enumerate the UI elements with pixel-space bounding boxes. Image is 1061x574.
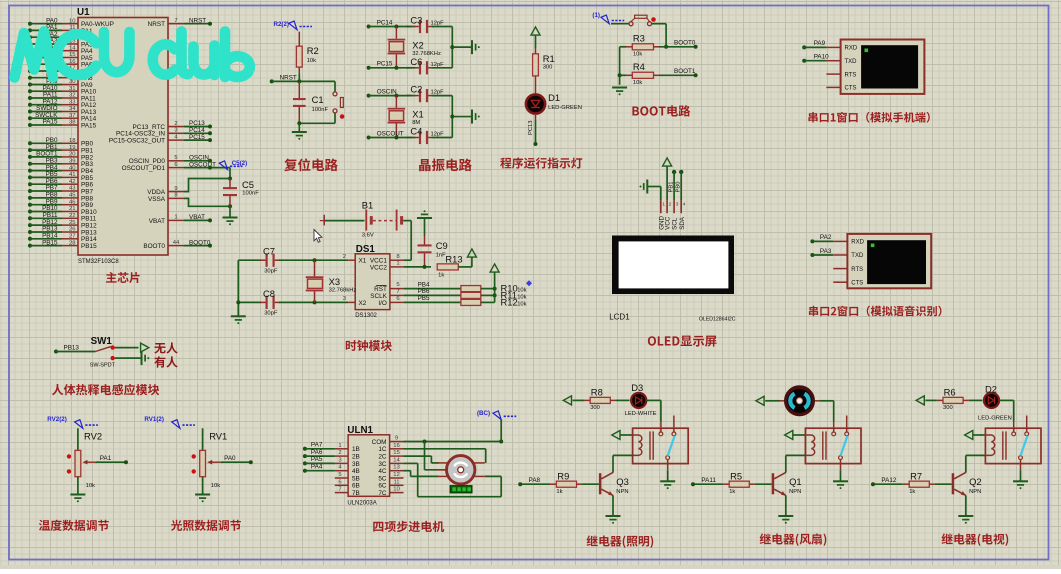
svg-text:C2: C2 — [410, 84, 422, 95]
svg-text:5B: 5B — [352, 475, 360, 482]
wire net PB13 to SW1 — [54, 344, 95, 353]
wire+pin U1 PB11 (pin 22) — [28, 212, 97, 223]
wire battery to VCC1 — [403, 221, 411, 261]
wire net BOOT1 — [659, 68, 698, 77]
svg-text:PA8: PA8 — [529, 477, 541, 484]
svg-text:300: 300 — [943, 405, 953, 411]
svg-text:RV1: RV1 — [209, 431, 227, 442]
svg-text:10k: 10k — [517, 302, 526, 308]
svg-text:NRST: NRST — [280, 74, 297, 81]
svg-text:R6: R6 — [944, 387, 956, 398]
svg-text:R9: R9 — [557, 470, 569, 481]
wire net PA1 from RV2 wiper — [96, 455, 128, 464]
wire net OSCOUT to C5 — [184, 166, 232, 181]
crystal X3 32.768kHz — [306, 260, 357, 302]
wire net NRST node — [270, 74, 335, 83]
svg-text:34: 34 — [69, 106, 76, 112]
blue flag label C5(2) — [219, 160, 247, 170]
wire net PA11 to R5 — [691, 477, 716, 486]
wire net BOOT0 stub — [184, 244, 212, 248]
ground below C5 — [223, 206, 238, 225]
wire net PB5 IO row — [404, 295, 461, 302]
svg-text:PB0: PB0 — [675, 182, 681, 193]
blue diamond marker — [526, 280, 532, 286]
svg-text:NPN: NPN — [969, 489, 981, 495]
svg-text:CTS: CTS — [845, 86, 857, 92]
wire net VBAT stub — [184, 218, 212, 222]
power arrow pullups — [490, 264, 499, 272]
ground crystal X1 — [472, 110, 480, 124]
watermark MCUclub — [15, 32, 250, 78]
wire+pin U1 PA15 (pin 38) — [28, 119, 97, 130]
wire net PA4 to ULN1 4B — [303, 464, 335, 473]
svg-text:41: 41 — [69, 172, 76, 178]
resistor R1 300 — [533, 48, 555, 94]
wire+pin U1 PA1 (pin 11) — [28, 24, 93, 35]
svg-text:32.768kHz: 32.768kHz — [329, 288, 357, 294]
pin ULN1 4B (4) — [335, 465, 360, 475]
svg-text:Q2: Q2 — [969, 476, 982, 487]
capacitor C6 12pF — [406, 56, 452, 75]
wire R13 to power — [458, 257, 472, 267]
battery B1 3.6V — [320, 200, 403, 239]
svg-text:2: 2 — [669, 202, 672, 207]
svg-text:PA6: PA6 — [311, 449, 323, 456]
wire net NRST from U1 — [184, 22, 212, 26]
svg-text:1k: 1k — [438, 273, 444, 279]
virtual terminal serial port 1 — [826, 40, 924, 94]
svg-text:I/O: I/O — [378, 300, 387, 307]
pin ULN1 1B (1) — [335, 443, 360, 453]
wire+pin U1 PB12 (pin 25) — [28, 219, 97, 230]
pin DS1 IO (6) — [390, 296, 404, 302]
svg-text:C1: C1 — [312, 94, 324, 105]
wire net VDDA to C5 node — [184, 178, 230, 193]
svg-text:PA1: PA1 — [100, 455, 112, 462]
svg-text:16: 16 — [69, 59, 76, 65]
svg-text:1k: 1k — [556, 489, 562, 495]
svg-text:14: 14 — [69, 45, 76, 51]
svg-text:6B: 6B — [352, 483, 360, 490]
svg-text:10k: 10k — [517, 288, 526, 294]
label jingzhen — [419, 159, 472, 172]
wire+pin U1 SWDIO (pin 34) — [28, 105, 97, 116]
svg-text:PA3: PA3 — [820, 248, 832, 255]
wire net PA12 to R7 — [871, 477, 897, 486]
svg-text:16: 16 — [393, 443, 400, 449]
svg-text:R3: R3 — [633, 32, 645, 43]
svg-text:43: 43 — [69, 186, 76, 192]
wire net PB4 RST row — [404, 281, 461, 288]
pin U1 PC14 (pin 3) — [116, 127, 205, 138]
wire net PB6 SCLK row — [404, 288, 461, 295]
svg-text:R5: R5 — [730, 470, 742, 481]
svg-text:COM: COM — [372, 439, 387, 446]
label zhuxinpian — [106, 272, 140, 283]
blue flag label RV2(2) — [47, 416, 98, 429]
power arrow left fan — [756, 396, 780, 405]
label jdq3 — [942, 533, 1009, 546]
wire net VCC2 node — [404, 265, 431, 269]
svg-text:100nF: 100nF — [242, 191, 259, 197]
svg-text:PA2: PA2 — [820, 234, 832, 241]
capacitor C7 30pF — [238, 246, 348, 275]
wire 3C to motor — [404, 463, 502, 496]
svg-text:32: 32 — [69, 93, 76, 99]
svg-text:2: 2 — [343, 254, 346, 260]
wire left vertical BOOT divider — [618, 47, 622, 85]
wire+pin U1 BOOT1 (pin 20) — [28, 151, 94, 162]
wire fan to relay contact — [820, 401, 834, 422]
resistor R10 10k — [461, 283, 527, 294]
wire+pin U1 PA5 (pin 15) — [28, 51, 93, 62]
svg-text:PC13: PC13 — [528, 120, 534, 135]
wire net PC15 stub — [184, 138, 212, 142]
LED D3 LED-WHITE — [616, 382, 657, 417]
svg-text:PA15: PA15 — [43, 119, 58, 126]
wire+pin U1 PB7 (pin 43) — [28, 185, 94, 196]
wire+pin U1 PA7 (pin 17) — [28, 65, 93, 76]
RTC chip DS1 DS1302 — [355, 244, 390, 319]
blue flag label R2(2) — [274, 21, 313, 30]
main MCU U1 STM32F103C8 — [77, 7, 168, 265]
svg-text:7C: 7C — [378, 490, 387, 497]
svg-text:STM32F103C8: STM32F103C8 — [78, 259, 119, 265]
svg-text:1k: 1k — [909, 489, 915, 495]
wire relay coil to Q2 collector — [966, 455, 986, 472]
svg-text:X1: X1 — [412, 108, 423, 119]
wire relay coil to Q1 collector — [786, 455, 806, 472]
label wendu — [39, 520, 109, 531]
svg-text:PA15: PA15 — [81, 122, 97, 129]
pin ULN1 2C (15) — [378, 450, 403, 460]
svg-text:19: 19 — [69, 145, 76, 151]
svg-text:10k: 10k — [86, 483, 95, 489]
wire+pin U1 PB0 (pin 18) — [28, 137, 94, 148]
wire net PA10 to terminal1 TXD — [802, 54, 829, 63]
svg-text:C8: C8 — [263, 288, 275, 299]
svg-text:C9: C9 — [436, 240, 448, 251]
wire button to BOOT0 net — [652, 24, 669, 49]
label chuankou1 — [808, 112, 929, 123]
svg-text:B1: B1 — [362, 200, 373, 211]
ground crystal X2 — [472, 40, 480, 54]
pin DS1 VCC2 (1) — [390, 261, 404, 267]
pin DS1 X1 (2) — [343, 254, 355, 260]
svg-text:3.6V: 3.6V — [362, 233, 374, 239]
svg-text:33: 33 — [69, 99, 76, 105]
ground RV2 — [70, 495, 85, 503]
svg-text:R12: R12 — [501, 297, 518, 308]
svg-text:PB6: PB6 — [418, 288, 430, 295]
pin ULN1 2B (2) — [335, 450, 360, 460]
svg-text:7: 7 — [174, 18, 177, 24]
wire left vertical C7-C8 — [236, 260, 240, 316]
ground Q1 emitter — [778, 495, 793, 523]
svg-text:CTS: CTS — [851, 280, 863, 286]
pin DS1 X2 (3) — [343, 296, 355, 302]
label renti — [52, 384, 159, 396]
svg-text:10k: 10k — [211, 483, 220, 489]
wire+pin U1 PA12 (pin 33) — [28, 98, 97, 109]
svg-text:U1: U1 — [77, 7, 90, 18]
svg-text:SW-SPDT: SW-SPDT — [90, 362, 116, 368]
svg-text:12: 12 — [393, 472, 400, 478]
svg-text:1C: 1C — [378, 446, 387, 453]
svg-text:D1: D1 — [548, 92, 560, 103]
wire SW1 top throw to power — [115, 347, 139, 349]
resistor R11 10k — [461, 290, 527, 301]
svg-text:BOOT0: BOOT0 — [143, 243, 165, 250]
svg-text:10k: 10k — [633, 51, 642, 57]
svg-text:PB15: PB15 — [81, 243, 97, 250]
wire+pin U1 PA6 (pin 16) — [28, 58, 93, 69]
svg-text:DS1: DS1 — [356, 244, 376, 255]
svg-text:RV2(2): RV2(2) — [47, 416, 67, 423]
svg-text:PA0: PA0 — [224, 455, 236, 462]
wire net PA5 to ULN1 3B — [303, 456, 335, 465]
stepper motor step display — [450, 486, 472, 493]
ground sideways (person) — [142, 351, 150, 365]
stepper motor — [437, 456, 484, 484]
relay coil power arrow (Q3) — [612, 431, 633, 440]
svg-text:BOOT1: BOOT1 — [674, 68, 696, 75]
ground relay common (Q3) — [660, 470, 675, 489]
wire D2 to relay contact — [999, 400, 1014, 421]
svg-text:RV1(2): RV1(2) — [144, 416, 164, 423]
OLED display LCD1 — [609, 236, 736, 323]
resistor R2 10k — [296, 32, 318, 74]
pin ULN1 6B (6) — [335, 479, 360, 489]
pin U1 BOOT0 (pin 44) — [143, 239, 211, 250]
svg-text:PA9: PA9 — [814, 40, 826, 47]
svg-text:SCLK: SCLK — [370, 293, 387, 300]
ground RV1 — [195, 495, 210, 503]
svg-text:1B: 1B — [352, 446, 360, 453]
svg-text:25: 25 — [69, 220, 76, 226]
svg-text:RV2: RV2 — [84, 431, 102, 442]
svg-text:C3: C3 — [410, 15, 422, 26]
svg-text:VSSA: VSSA — [148, 196, 166, 203]
label fuwei — [284, 158, 337, 171]
svg-text:R4: R4 — [633, 61, 645, 72]
svg-text:4: 4 — [683, 202, 686, 207]
wire+pin U1 PB3 (pin 39) — [28, 158, 94, 169]
svg-text:ULN1: ULN1 — [347, 425, 373, 436]
pin DS1 SCLK (7) — [390, 289, 404, 295]
svg-text:OSCIN: OSCIN — [377, 88, 397, 95]
svg-text:BOOT0: BOOT0 — [674, 39, 696, 46]
svg-text:7: 7 — [338, 487, 341, 493]
wire+pin U1 PB6 (pin 42) — [28, 178, 94, 189]
LED D1 LED-GREEN — [526, 92, 582, 113]
svg-text:9: 9 — [395, 436, 398, 442]
capacitor C8 30pF — [238, 288, 348, 317]
wire net PA2 to terminal2 RXD — [810, 234, 833, 243]
wire reset bottom — [297, 121, 335, 131]
power arrow R13 — [467, 249, 476, 257]
svg-text:7: 7 — [396, 289, 399, 295]
ground Q3 emitter — [606, 495, 621, 523]
svg-text:30: 30 — [69, 79, 76, 85]
svg-text:LED-WHITE: LED-WHITE — [625, 411, 657, 417]
svg-text:44: 44 — [173, 240, 180, 246]
svg-text:X3: X3 — [329, 276, 340, 287]
svg-text:3C: 3C — [378, 461, 387, 468]
svg-text:SDA: SDA — [679, 216, 686, 230]
switch SW1 SW-SPDT — [90, 336, 116, 368]
svg-text:Q3: Q3 — [616, 476, 629, 487]
wire net VSSA to C5 bottom node — [184, 198, 232, 209]
wire net PA3 to terminal2 TXD — [810, 248, 833, 257]
wire net PB0 to OLED SDA — [675, 170, 683, 200]
svg-text:TXD: TXD — [845, 59, 858, 65]
wire+pin U1 PA3 (pin 13) — [28, 38, 93, 49]
svg-text:PC15-OSC32_OUT: PC15-OSC32_OUT — [109, 138, 165, 145]
driver IC ULN1 ULN2003A — [347, 425, 389, 506]
wire RV1 bottom to ground — [202, 477, 204, 495]
svg-text:11: 11 — [393, 479, 399, 485]
svg-text:27: 27 — [69, 234, 76, 240]
svg-text:TXD: TXD — [851, 253, 864, 259]
resistor R12 10k — [461, 297, 527, 308]
svg-text:ULN2003A: ULN2003A — [347, 500, 376, 506]
svg-text:26: 26 — [69, 227, 76, 233]
svg-text:2: 2 — [338, 450, 341, 456]
svg-text:40: 40 — [69, 165, 76, 171]
svg-text:300: 300 — [590, 405, 600, 411]
svg-text:20: 20 — [69, 152, 76, 158]
wire+pin U1 PA4 (pin 14) — [28, 44, 93, 55]
blue flag label (1) — [592, 12, 624, 24]
wire+pin U1 PB13 (pin 26) — [28, 226, 97, 237]
svg-text:1: 1 — [338, 443, 341, 449]
capacitor C4 12pF — [406, 126, 452, 145]
svg-text:VCC2: VCC2 — [370, 264, 387, 271]
svg-text:OSCOUT: OSCOUT — [377, 130, 404, 137]
capacitor C2 12pF — [406, 84, 452, 103]
label wuren — [154, 342, 177, 353]
svg-text:D2: D2 — [985, 384, 997, 395]
wire net PA0 from RV1 wiper — [221, 455, 253, 464]
svg-text:R8: R8 — [591, 387, 603, 398]
svg-text:10: 10 — [393, 487, 400, 493]
pin ULN1 COM (9) — [372, 436, 404, 446]
power arrow left R8 — [563, 396, 584, 405]
svg-text:12pF: 12pF — [431, 21, 445, 27]
resistor R13 1k — [437, 254, 462, 279]
svg-text:(1): (1) — [592, 12, 600, 19]
svg-text:PB13: PB13 — [64, 344, 80, 351]
svg-text:DS1302: DS1302 — [355, 313, 377, 319]
label shizhong — [346, 340, 392, 351]
svg-text:PB1: PB1 — [668, 182, 674, 193]
svg-text:9: 9 — [174, 186, 177, 192]
svg-text:22: 22 — [69, 213, 76, 219]
svg-text:12pF: 12pF — [431, 132, 445, 138]
svg-text:LED-GREEN: LED-GREEN — [978, 416, 1012, 422]
svg-text:X1: X1 — [359, 258, 367, 265]
svg-text:4C: 4C — [378, 468, 387, 475]
pin U1 VDDA (pin 9) — [147, 186, 184, 196]
label boot — [632, 105, 690, 116]
svg-text:PA7: PA7 — [311, 442, 323, 449]
svg-text:31: 31 — [69, 86, 76, 92]
wire 4C to motor — [404, 471, 439, 477]
power arrow left R6 — [916, 396, 937, 405]
wire net PC13 stub — [184, 125, 212, 129]
OLED module pins GND VCC SCL SDA — [658, 200, 685, 230]
svg-text:PA12: PA12 — [881, 477, 896, 484]
svg-text:28: 28 — [69, 240, 76, 246]
wire net OSCOUT row — [367, 130, 412, 139]
relay Q1 — [805, 416, 861, 471]
push button BOOT — [611, 15, 656, 26]
ground Q2 emitter — [958, 495, 973, 523]
power arrow VCC indicator — [531, 27, 540, 48]
svg-text:42: 42 — [69, 179, 76, 185]
svg-text:R1: R1 — [543, 53, 555, 64]
power arrow OLED VCC — [663, 158, 672, 200]
pin ULN1 3C (14) — [378, 457, 403, 467]
svg-text:PB5: PB5 — [418, 295, 430, 302]
resistor R9 1k — [520, 470, 599, 495]
svg-text:C4: C4 — [410, 126, 422, 137]
wire RV2 bottom to ground — [77, 477, 79, 495]
svg-text:RXD: RXD — [851, 240, 864, 246]
label jdq2 — [760, 533, 827, 546]
svg-text:OSCOUT_PD1: OSCOUT_PD1 — [122, 165, 166, 172]
pin ULN1 7B (7) — [335, 487, 360, 497]
svg-text:NPN: NPN — [616, 489, 628, 495]
potentiometer RV2 10k — [67, 428, 102, 489]
svg-text:PB15: PB15 — [42, 239, 58, 246]
svg-text:PA10: PA10 — [814, 54, 829, 61]
transistor Q2 NPN — [952, 472, 982, 495]
pin U1 VSSA (pin 8) — [148, 193, 184, 203]
svg-text:SW1: SW1 — [91, 336, 113, 347]
blue flag label RV1(2) — [144, 416, 195, 429]
resistor R8 300 — [584, 387, 616, 412]
svg-text:NRST: NRST — [148, 21, 165, 28]
svg-text:6C: 6C — [378, 483, 387, 490]
svg-text:10k: 10k — [633, 80, 642, 86]
wire net PA7 to ULN1 1B — [303, 442, 335, 451]
svg-text:45: 45 — [69, 193, 76, 199]
ground OLED GND pin — [640, 180, 661, 201]
svg-text:39: 39 — [69, 159, 76, 165]
svg-text:D3: D3 — [631, 382, 643, 393]
relay Q3 — [633, 416, 689, 471]
resistor R4 10k — [620, 61, 659, 86]
ground relay common (Q1) — [833, 470, 848, 489]
resistor R7 1k — [873, 470, 952, 495]
pin ULN1 5C (12) — [378, 472, 403, 482]
wire 2C to motor — [404, 456, 439, 463]
potentiometer RV1 10k — [192, 428, 228, 489]
svg-text:3B: 3B — [352, 461, 360, 468]
resistor R6 300 — [937, 387, 969, 412]
svg-text:100nF: 100nF — [312, 107, 329, 113]
svg-text:LCD1: LCD1 — [609, 312, 630, 321]
ground relay common (Q2) — [1013, 470, 1028, 489]
power arrow right (no person) — [141, 343, 149, 352]
svg-text:(BC): (BC) — [477, 410, 490, 417]
push button reset — [333, 81, 344, 123]
svg-text:300: 300 — [543, 65, 553, 71]
svg-text:1: 1 — [174, 215, 177, 221]
wire net PC13 to D1 — [528, 114, 538, 146]
